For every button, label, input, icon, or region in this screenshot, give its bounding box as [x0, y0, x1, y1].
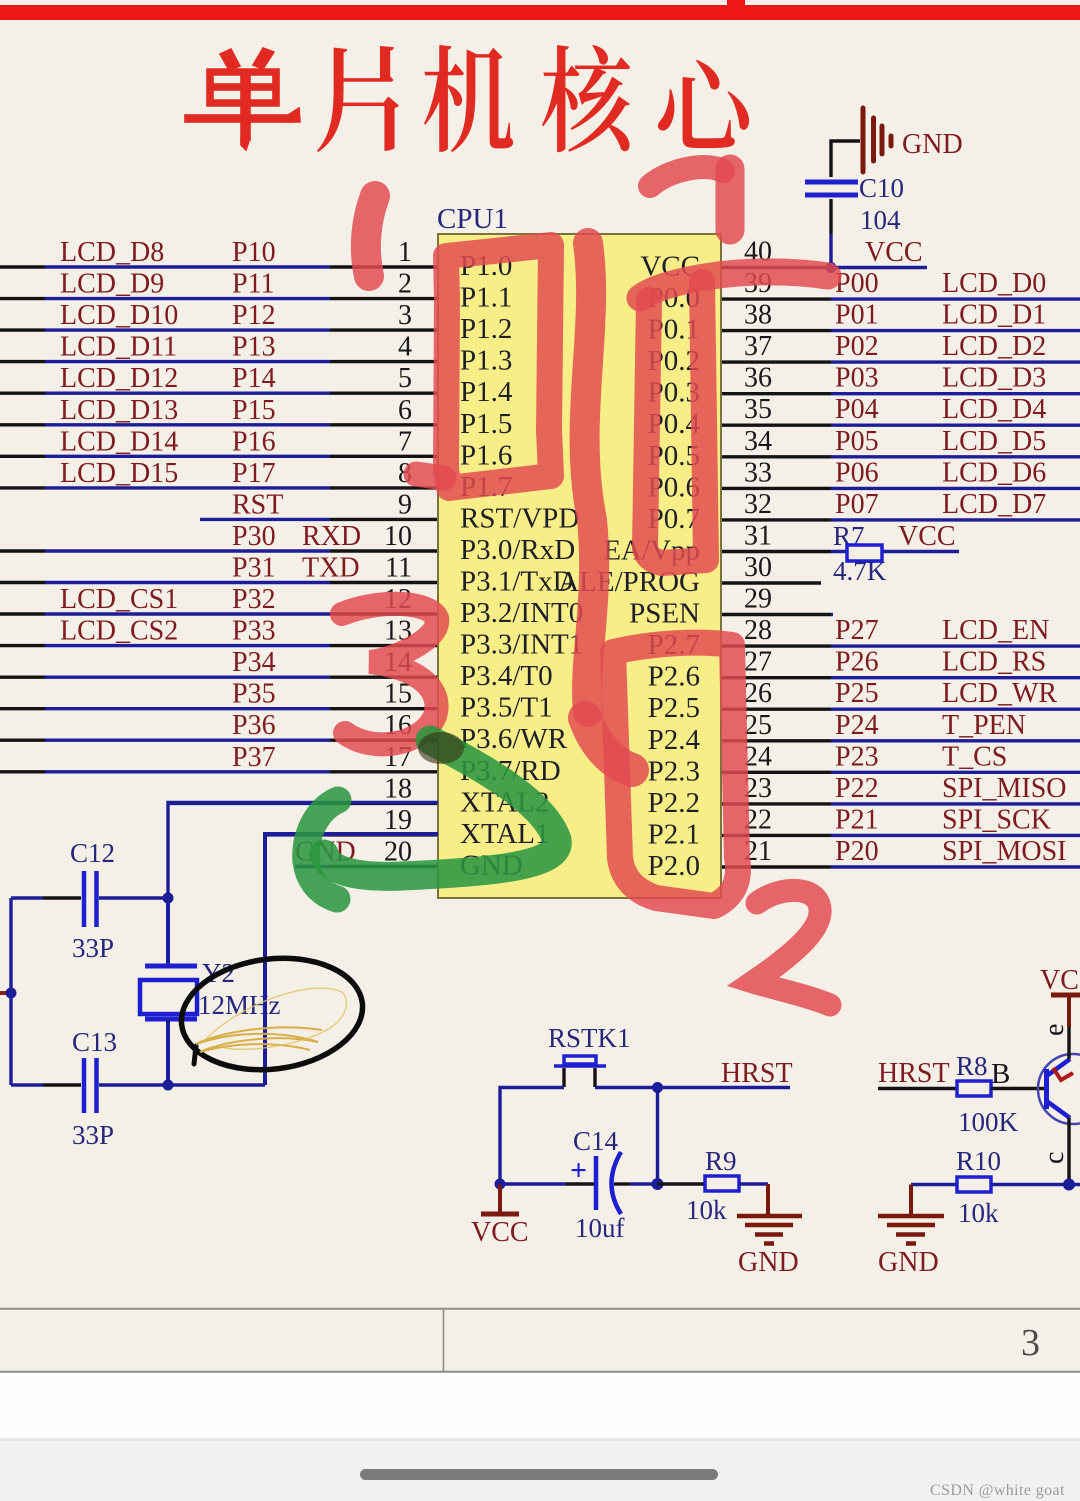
svg-text:e: e [1039, 1024, 1070, 1036]
svg-text:P33: P33 [232, 616, 276, 647]
svg-text:LCD_CS1: LCD_CS1 [60, 584, 178, 615]
svg-text:37: 37 [744, 331, 772, 362]
svg-text:HRST: HRST [721, 1058, 793, 1089]
svg-text:RST: RST [232, 489, 283, 520]
annotation red 3 [342, 604, 437, 745]
capacitor C14 [500, 1126, 657, 1243]
annotation red middle stroke [585, 243, 632, 770]
wire GND pin 20 [295, 837, 438, 868]
wire XTAL1 pin19 [265, 834, 438, 1085]
svg-text:P32: P32 [232, 584, 276, 615]
svg-text:18: 18 [384, 773, 412, 804]
wire P13 pin 4 [0, 332, 438, 363]
home indicator [360, 1469, 718, 1480]
transistor Q1 [1038, 1024, 1080, 1164]
wire P34 pin 14 [0, 647, 438, 678]
svg-text:CSDN @white goat: CSDN @white goat [930, 1482, 1065, 1499]
svg-text:104: 104 [860, 205, 901, 235]
svg-text:30: 30 [744, 552, 772, 583]
wire pin 29 [721, 584, 833, 615]
svg-text:GND: GND [878, 1247, 939, 1278]
svg-text:P14: P14 [232, 363, 276, 394]
svg-text:9: 9 [398, 489, 412, 520]
wire pin 23 SPI_MISO [721, 773, 1080, 804]
svg-text:TXD: TXD [302, 553, 360, 584]
wire pin 26 LCD_WR [721, 678, 1080, 709]
annotation red D [650, 167, 730, 230]
svg-text:LCD_D0: LCD_D0 [942, 268, 1046, 299]
annotation black ellipse [175, 948, 369, 1079]
node VCC pin40 [826, 237, 923, 273]
svg-text:P2.2: P2.2 [648, 787, 700, 819]
svg-text:VCC: VCC [898, 521, 956, 552]
resistor R9 [657, 1146, 768, 1225]
svg-text:P37: P37 [232, 742, 276, 773]
svg-text:P06: P06 [835, 457, 879, 488]
annotation green check [306, 740, 557, 899]
svg-text:LCD_WR: LCD_WR [942, 678, 1057, 709]
annotation red box P1 [416, 245, 551, 488]
wire pin 21 SPI_MOSI [721, 836, 1080, 867]
wire pin 31 [721, 521, 959, 552]
svg-text:P2.3: P2.3 [648, 755, 700, 787]
svg-text:P00: P00 [835, 268, 879, 299]
svg-text:RST/VPD: RST/VPD [460, 502, 579, 534]
svg-text:P3.5/T1: P3.5/T1 [460, 692, 553, 724]
svg-text:RXD: RXD [302, 521, 361, 552]
annotation red 1 [366, 196, 375, 276]
svg-text:P24: P24 [835, 710, 879, 741]
svg-text:LCD_D15: LCD_D15 [60, 458, 178, 489]
svg-text:LCD_D12: LCD_D12 [60, 363, 178, 394]
ground GND top [863, 108, 891, 172]
node crystal top [163, 893, 174, 904]
wire P16 pin 7 [0, 426, 438, 457]
svg-text:SPI_SCK: SPI_SCK [942, 804, 1051, 835]
svg-text:P16: P16 [232, 426, 276, 457]
svg-text:T_CS: T_CS [942, 741, 1007, 772]
svg-text:P1.3: P1.3 [460, 345, 512, 377]
wire P15 pin 6 [0, 395, 438, 426]
wire P33 pin 13 [0, 616, 438, 647]
svg-text:P23: P23 [835, 741, 879, 772]
svg-text:C13: C13 [72, 1027, 117, 1057]
svg-text:P1.5: P1.5 [460, 408, 512, 440]
svg-text:RSTK1: RSTK1 [548, 1023, 631, 1053]
svg-text:+: + [570, 1154, 587, 1187]
svg-text:LCD_D5: LCD_D5 [942, 426, 1046, 457]
svg-text:28: 28 [744, 615, 772, 646]
capacitor C12 [11, 838, 168, 963]
wire VCC to switch [500, 1088, 564, 1185]
wire collector down [1067, 1118, 1070, 1184]
wire pin 37 LCD_D2 [721, 331, 1080, 362]
svg-text:5: 5 [398, 363, 412, 394]
wire pin 33 LCD_D6 [721, 457, 1080, 488]
wire P37 pin 17 [0, 742, 438, 773]
svg-text:P07: P07 [835, 489, 879, 520]
svg-text:P1.2: P1.2 [460, 313, 512, 345]
svg-text:P12: P12 [232, 300, 276, 331]
svg-text:LCD_D10: LCD_D10 [60, 300, 178, 331]
wire pin 35 LCD_D4 [721, 394, 1080, 425]
svg-text:LCD_D9: LCD_D9 [60, 269, 164, 300]
svg-text:P2.1: P2.1 [648, 818, 700, 850]
svg-text:6: 6 [398, 395, 412, 426]
wire pin 39 LCD_D0 [721, 268, 1080, 299]
svg-text:P2.0: P2.0 [648, 850, 700, 882]
svg-text:3: 3 [398, 300, 412, 331]
svg-text:P13: P13 [232, 332, 276, 363]
svg-text:R8: R8 [956, 1051, 988, 1081]
schematic title 单片机核心 [185, 45, 749, 152]
wire pin 40 [721, 237, 927, 268]
svg-text:C12: C12 [70, 838, 115, 868]
svg-text:7: 7 [398, 426, 412, 457]
svg-text:P26: P26 [835, 647, 879, 678]
annotation red box P2 [613, 643, 738, 906]
svg-text:10uf: 10uf [575, 1213, 625, 1243]
svg-text:CPU1: CPU1 [437, 203, 508, 235]
resistor R8 [878, 1051, 1044, 1137]
wire P36 pin 16 [0, 710, 438, 741]
svg-text:P1.4: P1.4 [460, 376, 513, 408]
svg-text:11: 11 [385, 553, 412, 584]
svg-text:P3.4/T0: P3.4/T0 [460, 660, 553, 692]
ground GND R9 [737, 1184, 802, 1244]
svg-text:33: 33 [744, 457, 772, 488]
svg-text:LCD_EN: LCD_EN [942, 615, 1049, 646]
svg-text:LCD_D11: LCD_D11 [60, 332, 177, 363]
svg-text:P11: P11 [232, 269, 275, 300]
svg-text:P2.5: P2.5 [648, 692, 700, 724]
svg-text:38: 38 [744, 300, 772, 331]
wire pin 27 LCD_RS [721, 647, 1080, 678]
svg-text:3: 3 [1021, 1322, 1040, 1364]
svg-text:19: 19 [384, 805, 412, 836]
wire P31 pin 11 [0, 553, 438, 584]
svg-text:LCD_CS2: LCD_CS2 [60, 616, 178, 647]
svg-text:LCD_D6: LCD_D6 [942, 457, 1046, 488]
svg-text:4.7K: 4.7K [833, 556, 887, 586]
svg-text:SPI_MISO: SPI_MISO [942, 773, 1066, 804]
svg-text:P3.0/RxD: P3.0/RxD [460, 534, 575, 566]
svg-text:10k: 10k [686, 1195, 727, 1225]
wire XTAL pin 18 [168, 773, 438, 804]
wire RST pin 9 [200, 489, 438, 520]
svg-text:24: 24 [744, 741, 772, 772]
wire P10 pin 1 [0, 237, 438, 268]
svg-text:VCC: VCC [471, 1217, 529, 1248]
svg-text:P25: P25 [835, 678, 879, 709]
svg-text:LCD_D8: LCD_D8 [60, 237, 164, 268]
svg-text:P34: P34 [232, 647, 276, 678]
frame lines [0, 1309, 1080, 1372]
wire P12 pin 3 [0, 300, 438, 331]
svg-text:GND: GND [738, 1247, 799, 1278]
svg-text:P10: P10 [232, 237, 276, 268]
svg-text:1: 1 [398, 237, 412, 268]
wire pin 38 LCD_D1 [721, 300, 1080, 331]
wire P17 pin 8 [0, 458, 438, 489]
svg-text:27: 27 [744, 647, 772, 678]
wire pin 22 SPI_SCK [721, 804, 1080, 835]
wire XTAL2 pin18 [168, 803, 438, 899]
svg-text:LCD_RS: LCD_RS [942, 647, 1046, 678]
svg-text:P3.1/TxD: P3.1/TxD [460, 566, 574, 598]
node C14-R9 junction [652, 1178, 664, 1190]
wire pin 24 T_CS [721, 741, 1080, 772]
wire GND to C10 [831, 141, 860, 267]
svg-text:4: 4 [398, 332, 412, 363]
svg-text:T_PEN: T_PEN [942, 710, 1026, 741]
wire left bus C12-C13 [0, 898, 17, 1085]
svg-text:P03: P03 [835, 363, 879, 394]
svg-text:P04: P04 [835, 394, 879, 425]
annotation red box P0 [645, 282, 706, 563]
svg-text:SPI_MOSI: SPI_MOSI [942, 836, 1066, 867]
svg-text:LCD_D14: LCD_D14 [60, 426, 178, 457]
svg-text:32: 32 [744, 489, 772, 520]
crystal Y2 [140, 898, 281, 1085]
resistor R7 [833, 521, 956, 586]
svg-text:LCD_D2: LCD_D2 [942, 331, 1046, 362]
annotation red stroke pin39 [640, 272, 828, 298]
svg-text:P1.6: P1.6 [460, 439, 512, 471]
svg-text:P01: P01 [835, 300, 879, 331]
svg-text:33P: 33P [72, 1120, 114, 1150]
ground GND R10 [878, 1185, 944, 1244]
svg-text:10: 10 [384, 521, 412, 552]
svg-text:LCD_D3: LCD_D3 [942, 363, 1046, 394]
svg-text:P21: P21 [835, 804, 879, 835]
svg-text:P35: P35 [232, 679, 276, 710]
svg-text:R9: R9 [705, 1146, 737, 1176]
svg-text:10k: 10k [958, 1198, 999, 1228]
svg-text:LCD_D7: LCD_D7 [942, 489, 1046, 520]
svg-text:B: B [991, 1058, 1010, 1090]
svg-text:c: c [1039, 1152, 1070, 1164]
wire P11 pin 2 [0, 269, 438, 300]
svg-text:GND: GND [902, 129, 963, 160]
wire P14 pin 5 [0, 363, 438, 394]
power VCC transistor [1040, 965, 1080, 1059]
svg-text:C14: C14 [573, 1126, 619, 1156]
IC CPU1 microcontroller body [437, 203, 721, 898]
wire switch to HRST [595, 1086, 790, 1089]
resistor R10 [911, 1146, 1080, 1228]
svg-text:100K: 100K [958, 1107, 1019, 1137]
svg-text:P17: P17 [232, 458, 276, 489]
svg-text:LCD_D4: LCD_D4 [942, 394, 1046, 425]
svg-text:HRST: HRST [878, 1058, 950, 1089]
svg-text:35: 35 [744, 394, 772, 425]
svg-text:LCD_D1: LCD_D1 [942, 300, 1046, 331]
svg-text:P22: P22 [835, 773, 879, 804]
svg-text:12MHz: 12MHz [198, 990, 281, 1020]
svg-text:P30: P30 [232, 521, 276, 552]
capacitor C13 [11, 1027, 265, 1150]
wire P30 pin 10 [0, 521, 438, 552]
annotation dark overlap [418, 732, 464, 764]
svg-text:29: 29 [744, 584, 772, 615]
node HRST junction [652, 1082, 663, 1184]
node crystal bottom [163, 1080, 174, 1091]
wire pin 34 LCD_D5 [721, 426, 1080, 457]
wire pin 32 LCD_D7 [721, 489, 1080, 520]
wire pin 30 [721, 552, 821, 583]
wire pin 25 T_PEN [721, 710, 1080, 741]
svg-text:2: 2 [398, 269, 412, 300]
svg-text:C10: C10 [859, 173, 904, 203]
svg-text:34: 34 [744, 426, 772, 457]
svg-text:PSEN: PSEN [629, 598, 700, 630]
wire XTAL pin 19 [265, 805, 438, 836]
switch RSTK1 [548, 1023, 631, 1087]
svg-text:P2.6: P2.6 [648, 661, 700, 693]
svg-text:LCD_D13: LCD_D13 [60, 395, 178, 426]
svg-text:P3.3/INT1: P3.3/INT1 [460, 629, 583, 661]
svg-text:P15: P15 [232, 395, 276, 426]
capacitor C10 [805, 173, 904, 235]
svg-text:33P: 33P [72, 933, 114, 963]
annotation red 2 [753, 890, 830, 1005]
svg-text:VC: VC [1040, 965, 1079, 996]
svg-text:P27: P27 [835, 615, 879, 646]
wire pin 36 LCD_D3 [721, 363, 1080, 394]
power VCC bottom [471, 1179, 529, 1249]
svg-text:P05: P05 [835, 426, 879, 457]
svg-text:R10: R10 [956, 1146, 1001, 1176]
svg-text:36: 36 [744, 363, 772, 394]
svg-text:P20: P20 [835, 836, 879, 867]
top red bar [0, 0, 1080, 20]
wire P32 pin 12 [0, 584, 438, 615]
svg-text:P02: P02 [835, 331, 879, 362]
svg-text:VCC: VCC [865, 237, 923, 268]
svg-text:25: 25 [744, 710, 772, 741]
svg-text:P3.2/INT0: P3.2/INT0 [460, 597, 583, 629]
svg-text:P36: P36 [232, 710, 276, 741]
svg-text:P1.1: P1.1 [460, 282, 512, 314]
svg-text:P31: P31 [232, 553, 276, 584]
svg-text:P2.4: P2.4 [648, 724, 701, 756]
wire pin 28 LCD_EN [721, 615, 1080, 646]
svg-text:26: 26 [744, 678, 772, 709]
svg-text:31: 31 [744, 521, 772, 552]
wire P35 pin 15 [0, 679, 438, 710]
